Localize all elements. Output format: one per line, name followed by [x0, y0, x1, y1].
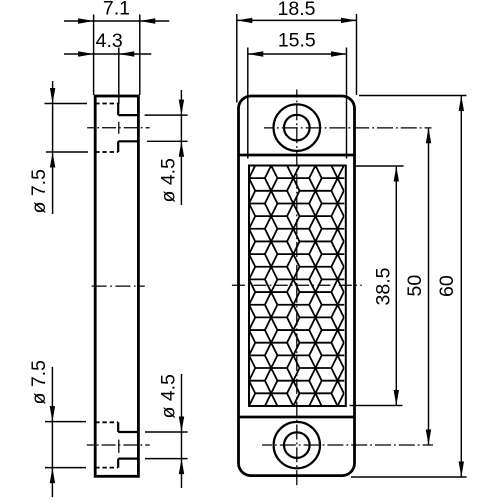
dimension 18.5 line — [237, 19, 357, 21]
horizontal centerline bottom hole front view — [262, 444, 433, 446]
dimension 38.5 line — [395, 166, 397, 406]
dimension 4.3 arrows — [78, 51, 134, 56]
centerline tick bottom hole side view — [118, 440, 120, 453]
svg-text:18.5: 18.5 — [278, 0, 316, 20]
dimension o4.5 bottom line — [181, 374, 183, 488]
dimension o4.5 bottom arrows — [179, 417, 184, 475]
dimension o7.5 bottom line — [51, 367, 53, 497]
reflector prism pattern — [233, 140, 376, 418]
dimension 60 arrows — [459, 96, 464, 478]
top mounting hole outer circle — [274, 104, 321, 151]
dimension 7.1 arrows — [78, 18, 155, 23]
svg-text:ø 7.5: ø 7.5 — [28, 169, 50, 214]
dimension 18.5 arrows — [237, 18, 357, 23]
svg-text:ø 7.5: ø 7.5 — [28, 360, 50, 405]
bottom mounting hole outer circle — [274, 422, 320, 468]
dimension 15.5 extension lines — [248, 48, 347, 159]
front view bottom separator line — [239, 416, 355, 419]
horizontal centerline top hole front view — [264, 127, 432, 129]
top counterbore hidden lines (o 7.5) — [95, 104, 118, 153]
dimension 15.5 arrows — [248, 51, 347, 56]
centerline top hole side view — [87, 127, 149, 129]
centerline mid height front view — [231, 284, 362, 286]
dimension o7.5 bottom extension lines — [45, 422, 86, 468]
svg-text:15.5: 15.5 — [278, 29, 316, 51]
top counterbore step solid lines (o 4.5 bore) — [118, 104, 138, 153]
dimension 60 line — [460, 96, 462, 478]
dimension o7.5 top line — [52, 81, 54, 214]
svg-text:ø 4.5: ø 4.5 — [158, 158, 180, 203]
dimension 50 line — [428, 128, 430, 445]
dimension o4.5 top extension lines — [145, 115, 188, 141]
dimension 50 arrows — [426, 128, 431, 445]
svg-text:38.5: 38.5 — [373, 267, 395, 305]
svg-text:4.3: 4.3 — [96, 30, 123, 52]
bottom counterbore hidden lines (o 7.5) — [95, 422, 118, 467]
front view body outline — [239, 96, 355, 476]
svg-text:7.1: 7.1 — [103, 0, 130, 19]
dimension 4.3 extension line — [118, 48, 120, 105]
side view body outline — [95, 96, 138, 476]
dimension o4.5 top arrows — [179, 100, 184, 157]
dimension 7.1 line — [64, 20, 169, 22]
dimension 4.3 line — [64, 53, 151, 55]
front view top separator line — [239, 154, 355, 157]
centerline mid height side view — [90, 285, 145, 287]
dimension 7.1 extension lines — [94, 15, 140, 96]
dimension 18.5 extension lines — [237, 14, 357, 103]
bottom mounting hole inner circle — [284, 432, 310, 458]
dimension 15.5 line — [248, 53, 347, 55]
reflector area frame — [249, 166, 346, 406]
dimension o4.5 bottom extension lines — [145, 432, 188, 459]
dimension 38.5 arrows — [394, 166, 399, 406]
top mounting hole inner circle — [284, 115, 310, 141]
dimension o7.5 top extension lines — [45, 104, 89, 153]
dimension 38.5 extension lines — [350, 166, 404, 406]
dimension o7.5 bottom arrows — [50, 406, 55, 483]
bottom counterbore step solid lines (o 4.5 bore) — [118, 422, 138, 467]
svg-text:ø 4.5: ø 4.5 — [158, 374, 180, 419]
svg-text:60: 60 — [436, 275, 458, 297]
centerline tick top hole side view — [118, 122, 120, 134]
dimension 60 extension lines — [351, 96, 467, 478]
svg-text:50: 50 — [404, 275, 426, 297]
dimension o7.5 top arrows — [50, 88, 55, 168]
centerline bottom hole side view — [87, 444, 150, 446]
dimension o4.5 top line — [180, 90, 182, 205]
vertical centerline front view — [296, 90, 298, 486]
